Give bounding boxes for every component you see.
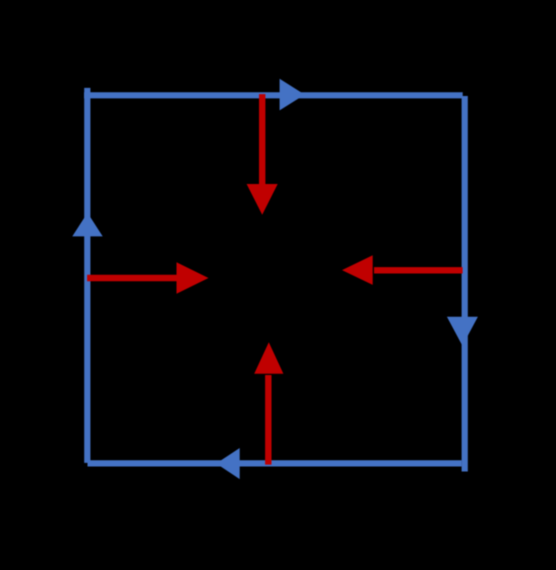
loop side right (blue) [462, 96, 468, 472]
red arrow bottom, pointing up: shaft [265, 375, 271, 465]
loop side bottom (blue) [88, 460, 462, 466]
red arrow bottom, pointing up: head [254, 342, 283, 374]
loop side left (blue) [84, 88, 90, 463]
red arrow right, pointing left: head [342, 255, 373, 285]
arrowhead right, pointing down (blue) [447, 317, 478, 346]
red arrow right, pointing left: shaft [374, 267, 463, 273]
arrowhead bottom, pointing left (blue) [216, 448, 240, 479]
red arrow left, pointing right: head [177, 262, 209, 294]
red arrow left, pointing right: shaft [87, 275, 178, 281]
arrowhead left, pointing up (blue) [72, 213, 102, 237]
red arrow top, pointing down: shaft [259, 94, 265, 186]
loop side top (blue) [84, 92, 463, 98]
red arrow top, pointing down: head [247, 184, 278, 215]
arrowhead top, pointing right (blue) [280, 79, 305, 111]
